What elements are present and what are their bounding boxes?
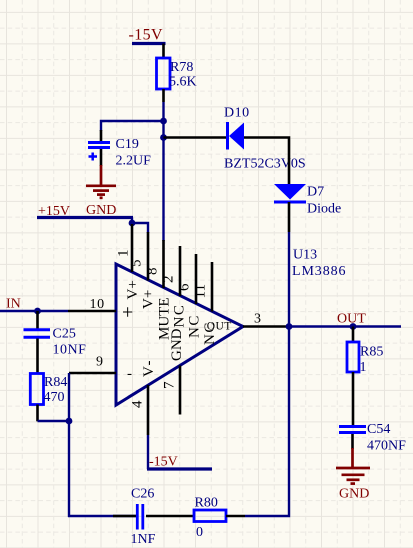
svg-text:GND: GND <box>86 203 116 218</box>
power port -15V (top) <box>129 27 166 44</box>
svg-text:0: 0 <box>196 525 203 540</box>
diode D10 BZT52C3V0S <box>224 106 306 172</box>
svg-text:5.6K: 5.6K <box>169 75 197 90</box>
svg-text:R80: R80 <box>195 496 218 511</box>
wire R78 to op-amp pin 8 <box>162 102 164 241</box>
junction +15V pin1/pin5 <box>129 220 136 227</box>
svg-text:OUT: OUT <box>207 321 232 333</box>
wire pin 9 down to bottom rail <box>68 373 70 517</box>
wire IN <box>0 310 68 312</box>
wire R84 to feedback node <box>38 420 70 422</box>
svg-text:6: 6 <box>177 283 193 291</box>
svg-text:C25: C25 <box>53 327 76 342</box>
svg-text:+: + <box>122 302 133 324</box>
wire D10 to D7 <box>244 138 289 185</box>
svg-text:R85: R85 <box>360 345 383 360</box>
svg-text:10NF: 10NF <box>53 343 87 358</box>
ground symbol (C54) <box>336 448 370 484</box>
diode D7 Diode <box>274 184 341 217</box>
svg-text:470NF: 470NF <box>367 439 406 454</box>
wire OUT <box>289 325 401 327</box>
wire R80 to feedback riser <box>245 327 289 517</box>
svg-text:NC: NC <box>172 304 188 328</box>
resistor R85 1 <box>347 327 383 427</box>
svg-text:C54: C54 <box>367 422 390 437</box>
svg-text:D10: D10 <box>224 106 250 121</box>
svg-text:V-: V- <box>141 359 157 377</box>
svg-text:2: 2 <box>161 276 177 284</box>
junction R78/C19 node <box>160 118 167 125</box>
svg-text:C26: C26 <box>131 487 154 502</box>
capacitor C25 10NF <box>24 327 87 358</box>
wire junction to C19 <box>101 121 164 131</box>
svg-text:NC: NC <box>187 314 203 338</box>
ground symbol (C19) <box>86 165 116 198</box>
pin 4 V- <box>130 359 158 435</box>
svg-text:BZT52C3V0S: BZT52C3V0S <box>224 157 306 172</box>
svg-text:GND: GND <box>169 328 185 361</box>
capacitor C54 470NF <box>339 422 406 454</box>
pin 1 V+ <box>116 224 142 300</box>
svg-text:7: 7 <box>162 381 178 389</box>
capacitor C19 2.2UF (polarized) <box>88 130 151 169</box>
svg-text:V+: V+ <box>125 280 141 299</box>
svg-text:11: 11 <box>193 284 209 298</box>
wire +15V to pin 5 <box>132 223 148 233</box>
wire pin 4 to -15V bar <box>147 435 149 469</box>
svg-text:8: 8 <box>145 268 161 276</box>
op-amp U13 LM3886 triangle body <box>116 264 243 405</box>
pin 10 +IN <box>68 297 133 324</box>
svg-text:-15V: -15V <box>129 27 164 44</box>
svg-text:R84: R84 <box>44 375 67 390</box>
svg-text:2.2UF: 2.2UF <box>116 154 152 169</box>
svg-text:D7: D7 <box>307 185 324 200</box>
svg-text:R78: R78 <box>170 60 193 75</box>
junction IN/C25 <box>34 308 41 315</box>
pin 6 NC <box>177 254 203 338</box>
svg-text:LM3886: LM3886 <box>292 264 346 279</box>
svg-text:V+: V+ <box>141 290 157 309</box>
power port -15V (bottom) <box>147 455 212 470</box>
pin 7 GND <box>162 328 186 414</box>
wire C25 to R84 <box>36 339 39 374</box>
svg-text:5: 5 <box>129 260 145 268</box>
svg-text:1: 1 <box>360 360 367 375</box>
wire to D10 anode <box>164 136 228 139</box>
svg-text:IN: IN <box>6 297 21 312</box>
power port +15V <box>37 204 133 223</box>
wire bottom rail left <box>68 515 137 517</box>
svg-text:Diode: Diode <box>307 202 341 217</box>
svg-text:3: 3 <box>254 312 261 327</box>
svg-text:470: 470 <box>44 390 65 405</box>
svg-text:1: 1 <box>116 250 132 258</box>
pin 11 NC <box>193 262 219 345</box>
resistor R78 5.6K <box>157 44 197 103</box>
pin 9 -IN <box>69 355 132 383</box>
resistor R80 0 <box>194 496 245 541</box>
svg-text:GND: GND <box>339 487 369 502</box>
resistor R84 470 <box>30 374 67 422</box>
svg-text:U13: U13 <box>293 248 317 263</box>
svg-text:1NF: 1NF <box>131 532 156 547</box>
svg-text:-15V: -15V <box>149 455 178 470</box>
svg-text:4: 4 <box>130 400 146 408</box>
svg-text:C19: C19 <box>116 137 139 152</box>
junction D10 branch node <box>160 134 167 141</box>
wire IN node to C25 <box>36 311 39 329</box>
junction OUT/R85 <box>350 323 357 330</box>
svg-text:10: 10 <box>90 297 105 312</box>
pin 2 NC <box>161 246 188 328</box>
pin 5 V+ <box>129 232 157 309</box>
svg-text:9: 9 <box>96 355 103 370</box>
svg-text:-: - <box>127 366 132 382</box>
wire D7 to OUT node <box>288 202 291 232</box>
junction OUT/D7/feedback <box>286 323 293 330</box>
wire C26 stubs <box>113 515 137 518</box>
pin 8 MUTE <box>145 240 173 340</box>
capacitor C26 1NF <box>131 487 156 548</box>
pin 3 OUT <box>207 312 289 333</box>
junction feedback node <box>66 418 73 425</box>
